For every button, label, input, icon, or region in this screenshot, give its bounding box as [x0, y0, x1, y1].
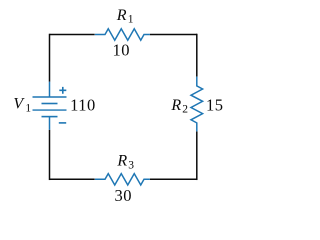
label R3 — [116, 153, 134, 172]
value 10 — [113, 40, 131, 59]
svg-text:R: R — [116, 7, 127, 24]
resistor R2 — [191, 77, 203, 132]
wire right-upper segment — [196, 34, 198, 77]
value 30 — [114, 186, 132, 205]
wire top-right segment — [150, 34, 197, 36]
battery V1 — [33, 82, 67, 130]
svg-text:3: 3 — [128, 159, 134, 171]
value 15 — [206, 96, 224, 115]
resistor R3 — [95, 174, 150, 185]
svg-text:2: 2 — [182, 103, 188, 115]
label R2 — [170, 97, 188, 116]
battery minus sign — [59, 122, 66, 124]
battery plus sign — [59, 87, 66, 94]
svg-text:R: R — [116, 153, 127, 170]
wire top-left segment — [50, 34, 95, 36]
svg-text:V: V — [13, 96, 25, 113]
svg-text:110: 110 — [70, 95, 96, 114]
wire left-lower segment — [49, 130, 51, 180]
wire bottom-left segment — [50, 178, 95, 180]
wire bottom-right segment — [150, 178, 197, 180]
resistor R1 — [95, 29, 150, 40]
svg-text:1: 1 — [25, 103, 31, 115]
svg-text:30: 30 — [114, 186, 132, 205]
svg-text:15: 15 — [206, 96, 224, 115]
wire left-upper segment — [49, 34, 51, 82]
label V1 — [13, 96, 31, 115]
svg-text:10: 10 — [113, 40, 131, 59]
svg-text:1: 1 — [128, 14, 134, 26]
svg-text:R: R — [170, 97, 181, 114]
wire right-lower segment — [196, 131, 198, 180]
value 110 — [70, 95, 96, 114]
label R1 — [116, 7, 134, 26]
